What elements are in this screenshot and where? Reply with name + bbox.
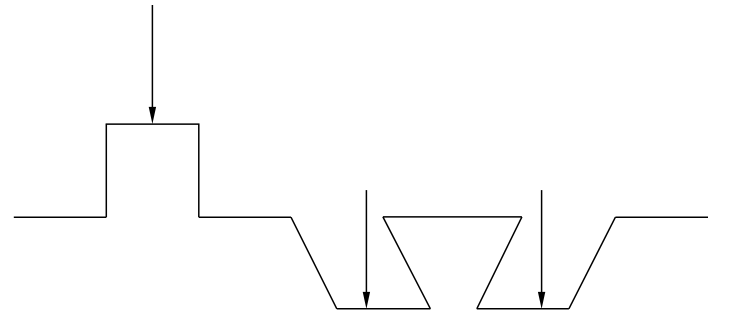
wire trench2-right-slope bbox=[569, 217, 616, 309]
wire baseline-middle bbox=[199, 216, 291, 218]
wire mesa-left-edge bbox=[105, 124, 107, 217]
arrow A3 (ion beam into trench 2) bbox=[538, 190, 545, 309]
wire baseline-right bbox=[615, 216, 708, 218]
arrow A1 (ion beam onto mesa top) bbox=[149, 5, 156, 124]
wire mesa-right-edge bbox=[198, 124, 200, 217]
wire trench1-bottom bbox=[337, 308, 431, 310]
wire trench1-left-slope bbox=[291, 217, 337, 309]
wire island-right-slope bbox=[477, 217, 522, 309]
wire trench2-bottom bbox=[477, 308, 569, 310]
arrow A2 (ion beam into trench 1) bbox=[363, 190, 370, 309]
wire baseline-left bbox=[14, 216, 107, 218]
wire mesa-top bbox=[106, 123, 200, 125]
wire island-top bbox=[383, 216, 522, 218]
wire island-left-slope bbox=[383, 217, 431, 309]
